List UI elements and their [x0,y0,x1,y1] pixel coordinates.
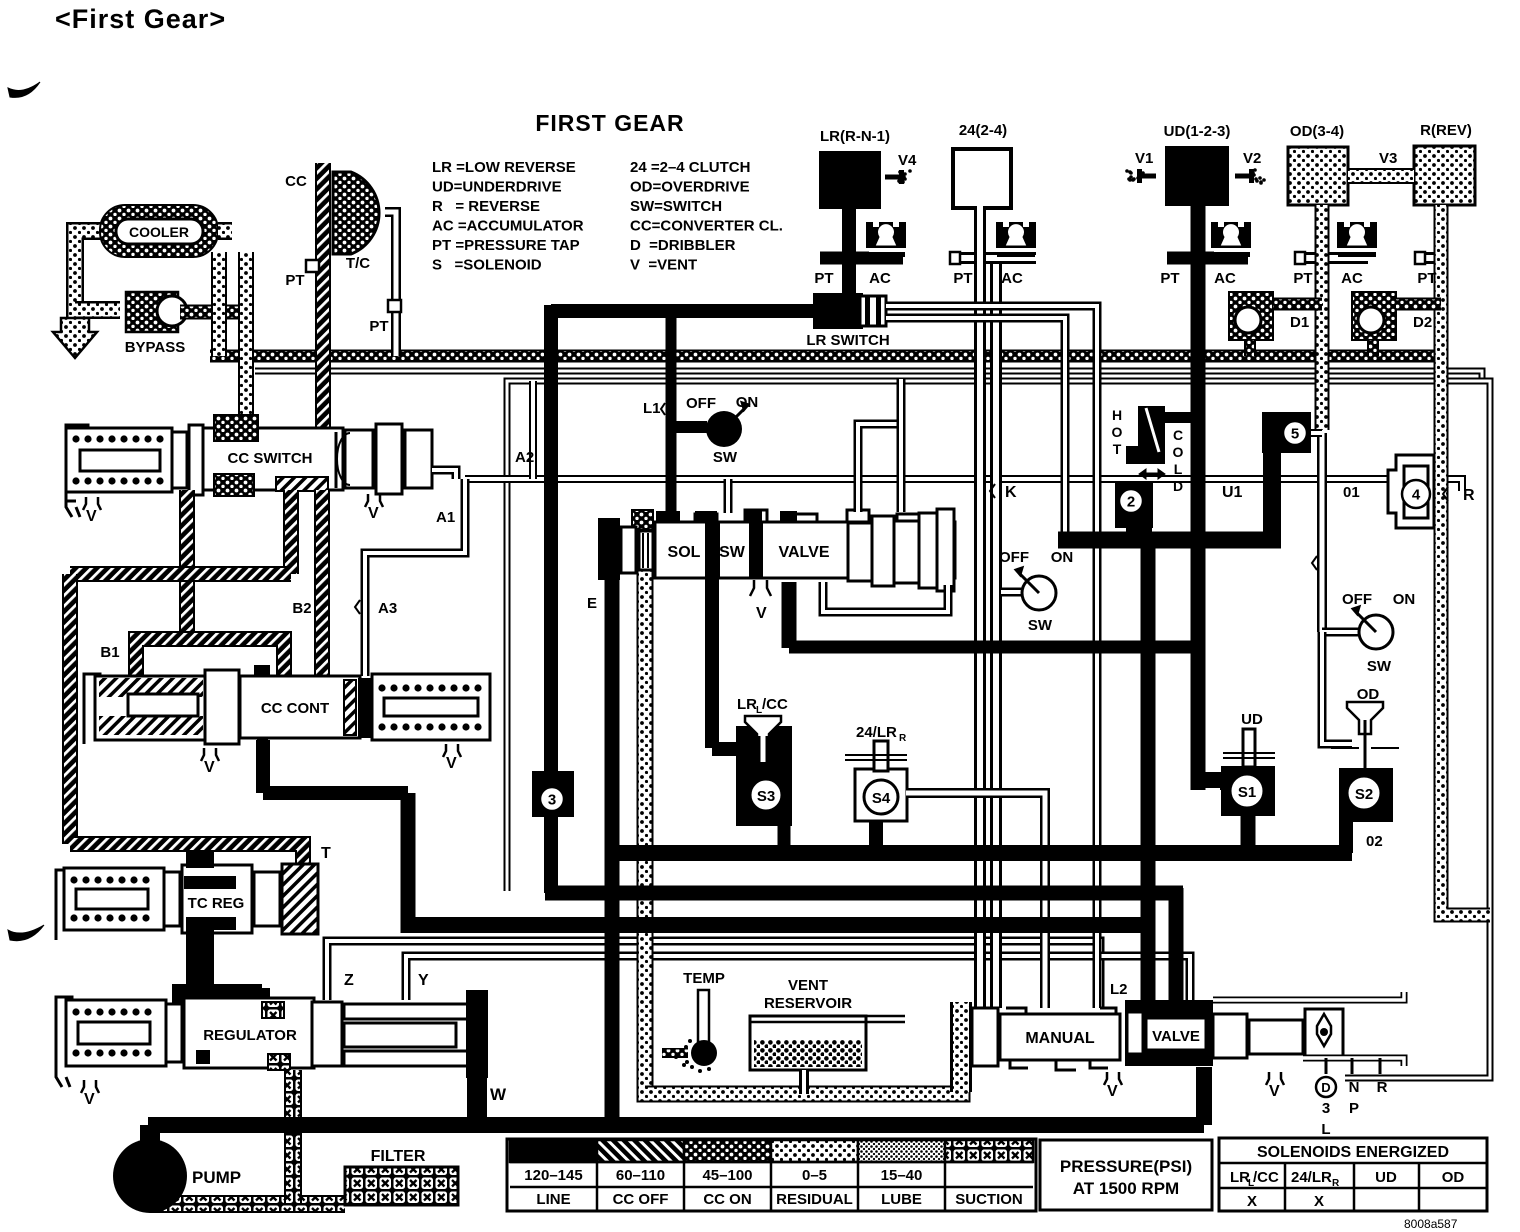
svg-text:TC REG: TC REG [188,895,245,912]
svg-text:LR(R-N-1): LR(R-N-1) [820,128,890,145]
svg-text:OFF: OFF [686,395,716,412]
wire right main vertical [1141,537,1156,1010]
svg-text:SOLENOIDS ENERGIZED: SOLENOIDS ENERGIZED [1257,1144,1449,1161]
svg-text:V1: V1 [1135,150,1153,167]
vent V1 [1140,174,1156,179]
svg-text:COOLER: COOLER [129,224,189,240]
wire T/C right channel [385,212,396,356]
accumulator LR(R-N-1) [819,151,881,209]
wire T elbow down [295,852,311,880]
wire R PT stub [1420,252,1448,264]
svg-text:K: K [1005,484,1017,501]
svg-text:AC =ACCUMULATOR: AC =ACCUMULATOR [432,218,584,235]
accumulator symbol AC (LR) [866,222,906,248]
svg-text:A2: A2 [515,449,534,466]
svg-text:BYPASS: BYPASS [125,339,186,356]
pressure tap PT (tc) [388,300,401,312]
svg-text:PT: PT [369,318,388,335]
valve REGULATOR spool [262,1002,284,1018]
torque converter T/C [333,172,379,254]
valve CC CONT spring right [372,674,490,740]
switch SW L1 [706,411,742,447]
wire UD stem [1191,205,1206,790]
svg-text:T/C: T/C [346,255,370,272]
wire thick to right y647 [789,641,1198,654]
wire drop x671 [666,305,677,515]
wire bypass to rail [180,305,246,320]
wire 24 stem K [974,206,986,1008]
pump [113,1139,187,1213]
svg-text:SW: SW [1028,617,1053,634]
svg-text:01: 01 [1343,484,1360,501]
svg-text:VALVE: VALVE [1152,1028,1200,1045]
wire hat vert 2 [283,490,299,574]
wire LR PT-AC bar [820,252,903,265]
svg-text:CC=CONVERTER CL.: CC=CONVERTER CL. [630,218,783,235]
svg-text:CC CONT: CC CONT [261,700,329,717]
wire OD PT-AC link [1300,252,1368,264]
svg-text:PT: PT [814,270,833,287]
svg-text:PT: PT [1417,270,1436,287]
svg-text:V =VENT: V =VENT [630,257,697,274]
wire hat horiz y574 [70,566,291,582]
wire main feed to LR switch [551,304,845,318]
svg-text:V: V [446,755,457,772]
valve block VALVE [1125,1000,1213,1066]
svg-text:3: 3 [1322,1100,1330,1117]
thermal valve HOT/COLD [1138,406,1165,464]
svg-text:V3: V3 [1379,150,1397,167]
svg-text:LINE: LINE [536,1191,570,1208]
svg-text:<First Gear>: <First Gear> [55,4,226,34]
manual ports D N R [1326,1058,1380,1074]
svg-text:3: 3 [548,791,556,808]
accumulator symbol AC (24) [996,222,1036,248]
svg-text:CC ON: CC ON [703,1191,751,1208]
wire 3 down [544,817,558,893]
svg-text:W: W [490,1085,507,1104]
svg-text:8008a587: 8008a587 [1404,1217,1458,1231]
svg-text:45–100: 45–100 [702,1167,752,1184]
wire AC drop 24 [990,264,1002,1008]
svg-text:OFF: OFF [999,549,1029,566]
svg-text:V: V [368,505,379,522]
wire mid box outline [507,381,1490,1078]
svg-text:PT: PT [1293,270,1312,287]
svg-text:N: N [1349,1079,1360,1096]
svg-text:D: D [1321,1080,1330,1095]
svg-text:R = REVERSE: R = REVERSE [432,198,540,215]
wire CC hat line [315,163,331,430]
svg-text:L: L [1174,461,1183,477]
svg-text:LR: LR [737,696,757,713]
svg-text:Z: Z [344,972,354,989]
vent V2 [1235,174,1251,179]
wire A2 long line [465,479,1462,491]
svg-text:X: X [1314,1193,1324,1210]
svg-text:4: 4 [1412,486,1421,503]
svg-text:TEMP: TEMP [683,970,725,987]
svg-text:/CC: /CC [762,696,788,713]
svg-text:OD=OVERDRIVE: OD=OVERDRIVE [630,179,750,196]
pebble patch above sol [632,510,653,530]
svg-text:120–145: 120–145 [524,1167,582,1184]
svg-text:A1: A1 [436,509,455,526]
svg-text:OD: OD [1442,1169,1465,1186]
svg-text:PT: PT [1160,270,1179,287]
wire main drop x551 [544,305,558,775]
valve manual right spool [1213,1014,1247,1058]
wire LR stem [842,205,856,300]
svg-text:O: O [1112,424,1123,440]
cooler [100,205,218,257]
svg-text:CC OFF: CC OFF [613,1191,669,1208]
svg-text:24/LR: 24/LR [1291,1169,1332,1186]
wire S1 down [1241,816,1256,853]
svg-text:PUMP: PUMP [192,1168,241,1187]
pressure tap PT (cc) [306,260,319,272]
svg-text:V2: V2 [1243,150,1261,167]
svg-text:LR =LOW REVERSE: LR =LOW REVERSE [432,159,576,176]
svg-text:CC SWITCH: CC SWITCH [228,450,313,467]
svg-text:SW=SWITCH: SW=SWITCH [630,198,722,215]
wire OD drop [1315,205,1330,430]
solenoid 5 [1262,412,1311,453]
svg-text:SW: SW [719,544,746,561]
svg-text:ON: ON [1051,549,1074,566]
valve TC REG [56,870,70,940]
svg-text:S2: S2 [1355,786,1373,803]
svg-text:60–110: 60–110 [616,1167,665,1184]
wire cooler right rail [218,222,232,240]
wire hot/cold down [1126,528,1152,540]
wire suction line [150,1195,345,1213]
wire E dotted channel [645,560,962,1094]
pressure box [1040,1140,1212,1210]
svg-text:PT: PT [953,270,972,287]
wire hat left rail [62,574,78,844]
solenoid S2 OD [1339,768,1393,822]
svg-text:C: C [1173,427,1183,443]
arrow out [53,318,97,358]
dribbler D2 [1352,292,1396,340]
svg-text:D1: D1 [1290,314,1309,331]
solenoid S1 UD [1221,766,1275,816]
svg-text:R: R [1463,487,1475,504]
svg-text:U1: U1 [1222,484,1243,501]
wire rail to cc switch [238,252,254,428]
svg-text:P: P [1349,1100,1359,1117]
dribbler D1 [1229,292,1273,340]
svg-text:V: V [1107,1083,1118,1100]
accumulator UD(1-2-3) [1165,146,1229,206]
solenoid valve body [621,527,636,573]
wire to S2 funnel [1322,632,1352,744]
wire line y925 [408,917,1148,933]
vent reservoir [750,1016,866,1070]
switch L1 stub [676,421,707,433]
svg-text:B1: B1 [100,644,119,661]
svg-text:24/LR: 24/LR [856,724,897,741]
svg-text:S3: S3 [757,788,775,805]
svg-text:OD: OD [1357,686,1380,703]
svg-text:V: V [1269,1083,1280,1100]
svg-text:VALVE: VALVE [779,544,830,561]
svg-text:B2: B2 [292,600,311,617]
svg-text:R: R [899,733,907,744]
svg-text:SOL: SOL [668,544,701,561]
svg-text:D: D [1173,478,1183,494]
wire TC REG black [186,852,214,868]
wire S2 down join 02 [1339,822,1353,853]
valve MANUAL [972,1008,998,1066]
wire manual bottom line [1303,1058,1404,1066]
svg-text:ON: ON [1393,591,1416,608]
svg-text:H: H [1112,407,1122,423]
svg-text:V: V [84,1091,95,1108]
accumulator R(REV) [1414,146,1475,205]
wire Y line [406,956,1190,1005]
accumulator symbol AC (OD) [1337,222,1377,248]
valve CC SWITCH [66,425,88,517]
accumulator symbol AC (UD) [1211,222,1251,248]
svg-text:E: E [587,595,597,612]
svg-text:V: V [756,605,767,622]
svg-text:S4: S4 [872,790,891,807]
wire box-A2 link [529,381,537,479]
svg-text:SUCTION: SUCTION [955,1191,1023,1208]
svg-text:O: O [1173,444,1184,460]
wire UD PT-AC bar [1167,252,1248,265]
wire Z line [327,941,1100,1008]
detent [1305,1009,1343,1057]
wire 01 channel [1317,433,1327,632]
page mark bottom [8,925,44,941]
svg-text:5: 5 [1291,425,1299,442]
wire UD elbow to S1 [1198,780,1228,790]
accumulator OD(3-4) [1288,147,1348,205]
svg-text:PT =PRESSURE TAP: PT =PRESSURE TAP [432,237,580,254]
svg-text:CC: CC [285,173,307,190]
svg-text:MANUAL: MANUAL [1025,1030,1095,1047]
svg-text:AC: AC [1341,270,1363,287]
svg-text:R: R [1332,1178,1340,1189]
svg-text:V: V [204,759,215,776]
svg-text:X: X [1247,1193,1257,1210]
solenoid S3 LR/CC [736,726,792,826]
wire LR switch out lower [886,318,1065,533]
svg-text:UD=UNDERDRIVE: UD=UNDERDRIVE [432,179,562,196]
wire cooler left rail [75,231,104,318]
wire A1 [432,470,456,479]
svg-text:SW: SW [1367,658,1392,675]
wire hat to T [70,844,303,868]
wire E line vertical [605,560,620,1125]
svg-text:FILTER: FILTER [371,1148,426,1165]
svg-text:PRESSURE(PSI): PRESSURE(PSI) [1060,1157,1192,1176]
legend table [507,1139,1036,1211]
svg-text:02: 02 [1366,833,1383,850]
solenoid S4 24/LR [855,769,907,821]
vent V4 [885,175,901,180]
svg-text:PT: PT [285,272,304,289]
wire suction riser [284,1070,302,1204]
svg-text:VENT: VENT [788,977,828,994]
svg-text:S =SOLENOID: S =SOLENOID [432,257,542,274]
wire valve to main [1196,1067,1212,1125]
svg-text:D =DRIBBLER: D =DRIBBLER [630,237,736,254]
svg-text:15–40: 15–40 [881,1167,923,1184]
wire line y893 [545,886,1183,901]
wire B2 drop [314,490,330,676]
solenoid 3 [532,771,574,817]
LR switch [813,293,863,329]
solenoids energized table [1219,1138,1487,1211]
svg-text:D2: D2 [1413,314,1432,331]
svg-text:L: L [1321,1121,1330,1138]
wire bypass line [75,301,120,319]
wire S4 down [869,821,883,850]
wire S3 down [778,826,791,853]
wire V3 link [1348,168,1414,184]
bypass spring [126,292,178,332]
wire y545 header [1058,532,1281,549]
switch SW K [1001,588,1022,597]
accumulator 24(2-4) [953,149,1011,208]
svg-text:2: 2 [1127,493,1135,510]
wire B1 branch [136,639,284,676]
wire A2-valve link [724,479,733,513]
svg-text:Y: Y [418,972,429,989]
svg-text:V: V [86,508,97,525]
wire 02 line [612,845,1352,861]
svg-text:OFF: OFF [1342,591,1372,608]
page mark top [8,82,40,97]
svg-text:A3: A3 [378,600,397,617]
svg-text:0–5: 0–5 [802,1167,827,1184]
svg-text:LUBE: LUBE [881,1191,922,1208]
wire valve upper loop [858,424,901,512]
svg-text:RESIDUAL: RESIDUAL [776,1191,853,1208]
svg-text:SW: SW [713,449,738,466]
svg-text:V4: V4 [898,152,917,169]
wire CC CONT down [256,740,270,793]
svg-text:L2: L2 [1110,981,1128,998]
svg-text:S1: S1 [1238,784,1256,801]
wire vert2 to valve [1169,888,1184,1010]
wire 5 drop [1263,453,1281,545]
svg-text:UD: UD [1375,1169,1397,1186]
svg-text:T: T [1113,441,1122,457]
svg-text:AC: AC [869,270,891,287]
svg-text:24 =2–4 CLUTCH: 24 =2–4 CLUTCH [630,159,750,176]
wire valve lower loop [823,582,948,612]
svg-text:REGULATOR: REGULATOR [203,1027,297,1044]
valve REGULATOR [56,997,72,1087]
wire thin line y373 [255,371,1482,383]
valve CC SWITCH spool right [345,430,373,488]
manual valve left cap [950,1002,972,1092]
svg-text:UD: UD [1241,711,1263,728]
svg-text:OD(3-4): OD(3-4) [1290,123,1344,140]
svg-text:L1: L1 [643,400,661,417]
component 4 [1388,455,1434,528]
wire W drop [467,1068,487,1125]
wire S4 right channel [906,793,1045,1008]
svg-text:ON: ON [736,394,759,411]
svg-text:T: T [321,845,331,862]
switch SW right [1322,628,1359,637]
wire manual top line [1213,992,1404,1000]
svg-text:AC: AC [1001,270,1023,287]
svg-text:R: R [1377,1079,1388,1096]
wire 24 PT-AC link [956,252,1036,264]
wire vent loop [645,1008,962,1094]
wire R drop [1441,205,1490,915]
svg-text:UD(1-2-3): UD(1-2-3) [1164,123,1231,140]
svg-text:24(2-4): 24(2-4) [959,122,1007,139]
wire pebble main line [210,350,1441,363]
wire A1-A3 link [365,479,465,676]
wire sol divider down to LR/CC [705,578,719,748]
wire pump riser [140,1125,160,1148]
svg-text:FIRST GEAR: FIRST GEAR [535,110,684,136]
wire main bottom line [148,1117,1204,1133]
valve CC CONT [84,674,100,744]
filter [345,1167,458,1205]
svg-text:/CC: /CC [1253,1169,1279,1186]
svg-text:R(REV): R(REV) [1420,122,1472,139]
svg-text:AT 1500 RPM: AT 1500 RPM [1073,1179,1179,1198]
svg-text:AC: AC [1214,270,1236,287]
svg-text:RESERVOIR: RESERVOIR [764,995,852,1012]
wire E inlet block [598,518,620,580]
wire valve divider down [782,582,797,648]
svg-text:LR SWITCH: LR SWITCH [806,332,889,349]
wire LR switch out upper / L2 channel [886,306,1097,1008]
wire hat vert 1 [179,490,195,640]
